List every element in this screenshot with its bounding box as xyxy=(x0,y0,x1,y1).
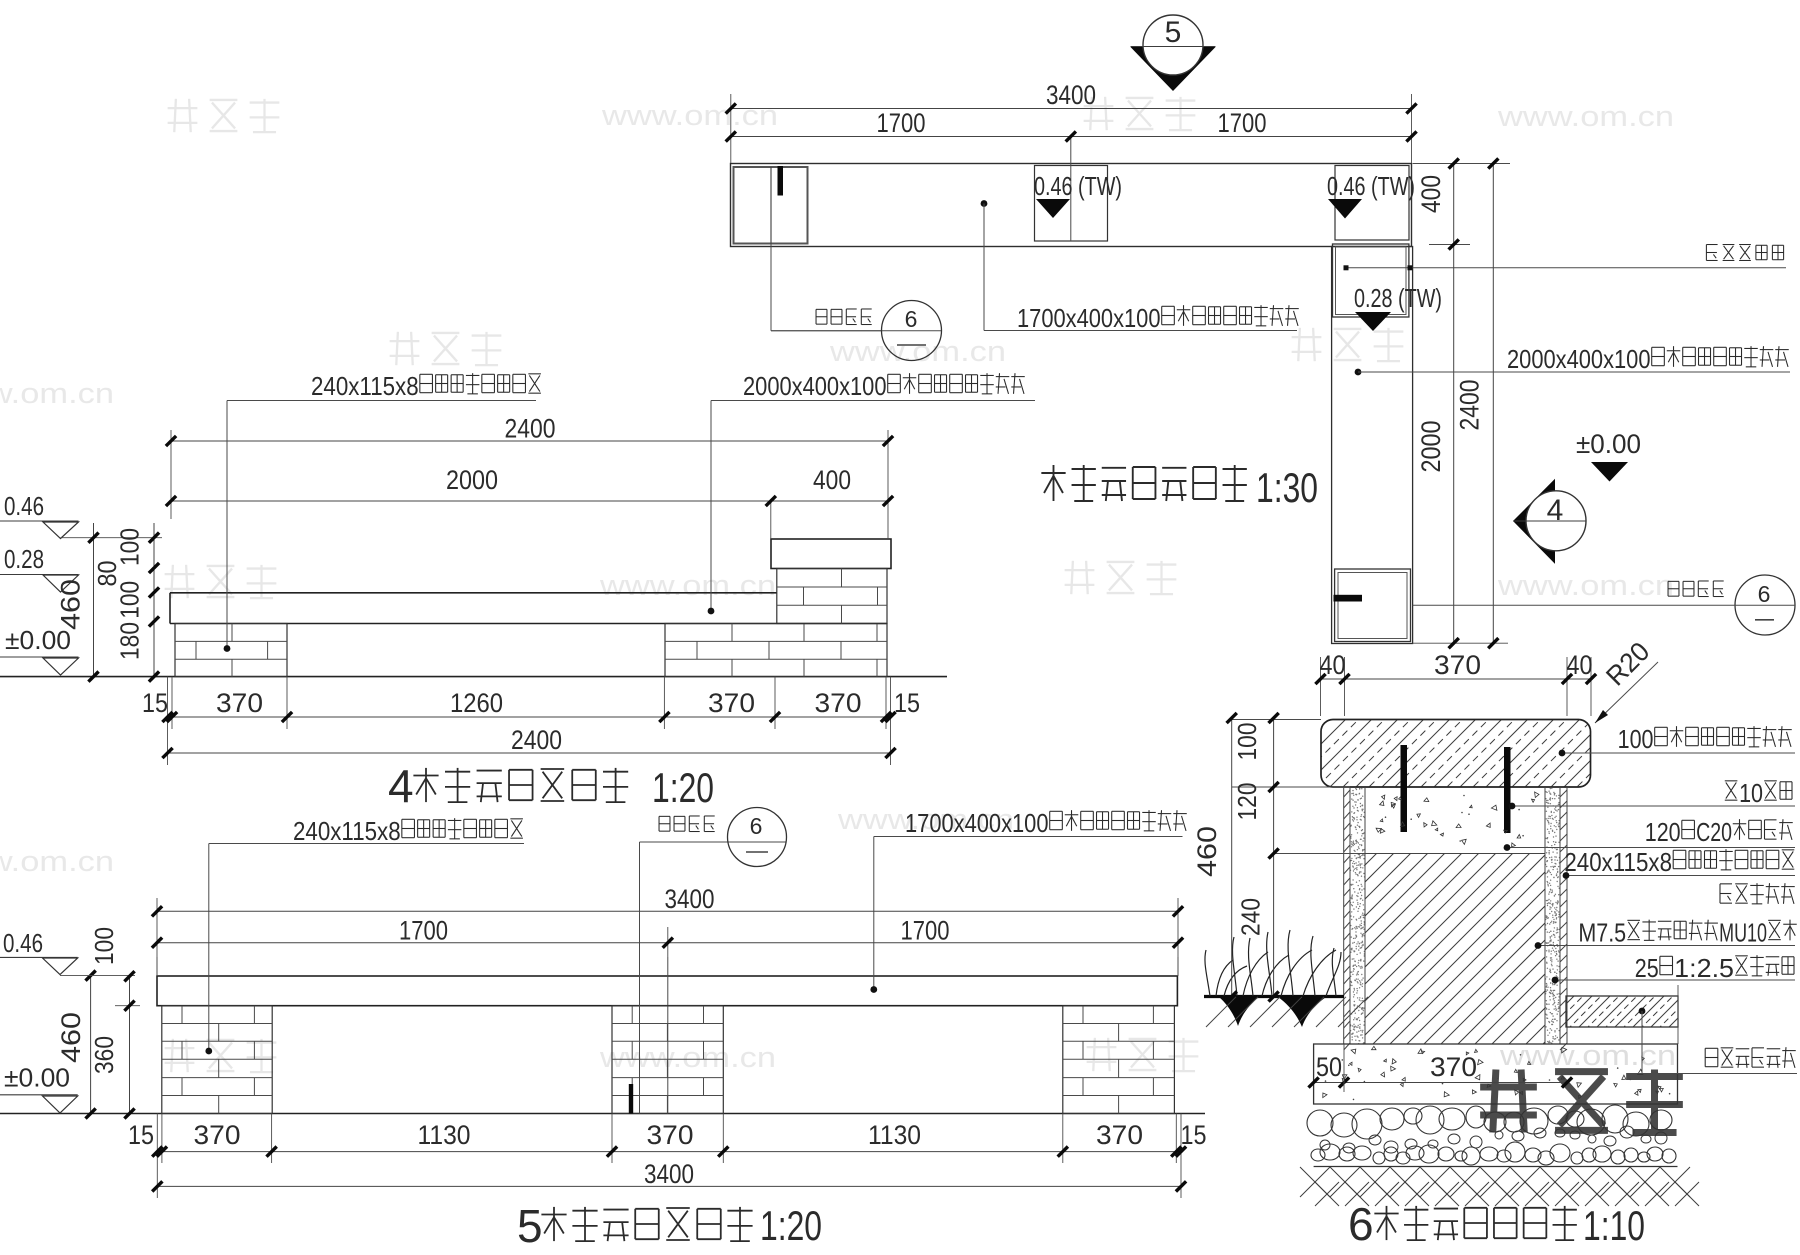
svg-text:370: 370 xyxy=(1434,650,1481,680)
svg-text:4: 4 xyxy=(1547,494,1564,527)
svg-text:100: 100 xyxy=(89,927,119,965)
svg-text:370: 370 xyxy=(708,688,755,718)
svg-text:400: 400 xyxy=(1416,175,1446,213)
svg-text:6: 6 xyxy=(750,813,763,839)
svg-text:370: 370 xyxy=(216,688,263,718)
svg-text:360: 360 xyxy=(89,1036,119,1074)
svg-text:1700: 1700 xyxy=(901,916,950,946)
svg-text:370: 370 xyxy=(815,688,862,718)
svg-text:1:2.5: 1:2.5 xyxy=(1674,953,1734,983)
svg-text:1700x400x100: 1700x400x100 xyxy=(905,808,1049,838)
svg-text:400: 400 xyxy=(813,465,851,495)
svg-text:1:20: 1:20 xyxy=(760,1202,822,1249)
svg-text:2400: 2400 xyxy=(1455,380,1485,431)
svg-text:460: 460 xyxy=(1192,826,1222,877)
svg-text:460: 460 xyxy=(56,1012,86,1063)
svg-text:0.46: 0.46 xyxy=(3,928,43,958)
svg-text:1700x400x100: 1700x400x100 xyxy=(1017,303,1161,333)
svg-text:40: 40 xyxy=(1567,650,1593,680)
svg-text:240x115x8: 240x115x8 xyxy=(311,371,419,401)
svg-text:2000: 2000 xyxy=(446,465,498,495)
svg-text:15: 15 xyxy=(1181,1120,1207,1150)
svg-text:3400: 3400 xyxy=(1046,80,1096,110)
svg-text:370: 370 xyxy=(647,1120,694,1150)
svg-text:MU10: MU10 xyxy=(1719,918,1767,948)
svg-text:240x115x8: 240x115x8 xyxy=(293,816,401,846)
svg-text:240: 240 xyxy=(1236,898,1266,936)
svg-text:10: 10 xyxy=(1739,778,1763,808)
svg-text:0.46 (TW): 0.46 (TW) xyxy=(1034,171,1122,201)
svg-text:240x115x8: 240x115x8 xyxy=(1564,847,1672,877)
svg-text:1130: 1130 xyxy=(418,1120,471,1150)
svg-text:www.om.cn: www.om.cn xyxy=(1497,570,1674,602)
svg-text:1:30: 1:30 xyxy=(1256,464,1318,511)
svg-text:2000: 2000 xyxy=(1416,421,1446,473)
svg-text:2400: 2400 xyxy=(505,414,556,444)
svg-text:1260: 1260 xyxy=(450,688,503,718)
svg-text:370: 370 xyxy=(1096,1120,1143,1150)
svg-text:100: 100 xyxy=(115,528,145,566)
svg-text:1130: 1130 xyxy=(868,1120,921,1150)
svg-text:M7.5: M7.5 xyxy=(1578,918,1626,948)
svg-text:www.om.cn: www.om.cn xyxy=(0,846,114,878)
svg-text:±0.00: ±0.00 xyxy=(1576,429,1641,459)
svg-text:6: 6 xyxy=(905,306,918,332)
svg-text:2000x400x100: 2000x400x100 xyxy=(743,371,887,401)
svg-text:100: 100 xyxy=(115,581,145,619)
svg-text:1700: 1700 xyxy=(877,108,926,138)
svg-text:3400: 3400 xyxy=(644,1159,694,1189)
svg-text:100: 100 xyxy=(1232,723,1262,761)
svg-text:40: 40 xyxy=(1320,650,1346,680)
svg-text:www.om.cn: www.om.cn xyxy=(0,378,114,410)
svg-text:2000x400x100: 2000x400x100 xyxy=(1507,344,1651,374)
svg-text:0.46 (TW): 0.46 (TW) xyxy=(1327,171,1415,201)
svg-text:460: 460 xyxy=(56,579,86,630)
svg-text:5: 5 xyxy=(1165,16,1182,49)
svg-text:www.om.cn: www.om.cn xyxy=(1499,1040,1676,1072)
svg-text:±0.00: ±0.00 xyxy=(4,1063,70,1093)
svg-text:370: 370 xyxy=(1430,1052,1477,1082)
svg-text:50: 50 xyxy=(1316,1052,1342,1082)
svg-text:1:10: 1:10 xyxy=(1583,1202,1645,1249)
svg-text:25: 25 xyxy=(1635,953,1659,983)
svg-text:5: 5 xyxy=(517,1200,543,1252)
svg-text:www.om.cn: www.om.cn xyxy=(599,570,776,602)
svg-text:3400: 3400 xyxy=(665,884,715,914)
svg-text:1:20: 1:20 xyxy=(652,764,714,811)
svg-text:120: 120 xyxy=(1645,817,1681,847)
svg-text:15: 15 xyxy=(128,1120,154,1150)
svg-text:www.om.cn: www.om.cn xyxy=(601,100,778,132)
svg-text:370: 370 xyxy=(194,1120,241,1150)
svg-text:6: 6 xyxy=(1758,581,1771,607)
svg-text:4: 4 xyxy=(388,760,414,812)
svg-text:6: 6 xyxy=(1348,1198,1374,1250)
svg-text:0.28 (TW): 0.28 (TW) xyxy=(1354,283,1442,313)
svg-text:100: 100 xyxy=(1618,724,1654,754)
svg-text:15: 15 xyxy=(894,688,920,718)
svg-text:www.om.cn: www.om.cn xyxy=(1497,101,1674,133)
svg-text:15: 15 xyxy=(142,688,168,718)
svg-text:1700: 1700 xyxy=(1218,108,1267,138)
svg-text:2400: 2400 xyxy=(511,725,562,755)
svg-text:www.om.cn: www.om.cn xyxy=(599,1042,776,1074)
svg-text:www.om.cn: www.om.cn xyxy=(829,336,1006,368)
svg-text:C20: C20 xyxy=(1696,817,1732,847)
svg-text:1700: 1700 xyxy=(399,916,448,946)
svg-text:0.46: 0.46 xyxy=(4,491,44,521)
svg-text:0.28: 0.28 xyxy=(4,544,44,574)
svg-text:180: 180 xyxy=(115,622,145,660)
svg-text:120: 120 xyxy=(1232,783,1262,821)
